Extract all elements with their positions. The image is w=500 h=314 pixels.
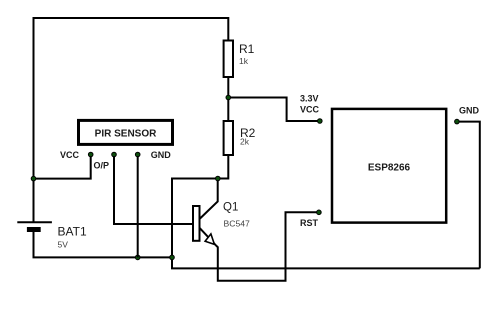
svg-text:BAT1: BAT1 [58,225,87,239]
svg-text:GND: GND [459,106,480,116]
wire ground bus [171,267,480,269]
wire PIR GND down to bus [137,156,139,257]
wire O/P to transistor base [114,156,193,224]
node ESP VCC pin [318,119,323,124]
node ESP GND pin [455,119,460,124]
node ESP RST pin [317,210,322,215]
node PIR O/P pin [112,152,117,157]
svg-text:PIR SENSOR: PIR SENSOR [95,129,157,140]
svg-text:GND: GND [151,150,172,160]
ESP8266 box [332,109,446,223]
svg-text:O/P: O/P [94,161,110,171]
node PIR GND pin [135,152,140,157]
battery BAT1 plate minus [27,227,41,232]
wire collector node to ground drop [172,179,218,269]
wire right rail to ESP GND pin [459,122,480,269]
wire emitter to RST pin [217,212,317,280]
transistor Q1 emitter arrowhead [205,234,214,245]
wire battery minus to ground bus [34,232,173,258]
node PIR VCC pin [88,152,93,157]
wire R2 bottom to collector node [218,155,229,179]
node collector junction [216,176,221,181]
svg-text:VCC: VCC [60,150,80,160]
svg-text:Q1: Q1 [223,202,238,214]
svg-text:5V: 5V [58,240,69,250]
wire R1 bottom to junction [227,77,229,98]
wire top rail (battery plus to R1 top) [34,18,229,222]
resistor R2 [224,121,233,155]
transistor Q1 base bar [193,206,200,241]
svg-text:RST: RST [300,218,319,228]
PIR sensor box [79,120,173,144]
node R1/R2 junction [226,95,231,100]
svg-text:3.3V: 3.3V [300,94,319,104]
node left rail junction [31,176,36,181]
node bus left junction [170,255,175,260]
svg-text:ESP8266: ESP8266 [368,163,411,174]
svg-text:1k: 1k [239,56,249,66]
wire left rail to PIR VCC [34,156,91,179]
transistor Q1 emitter lead [200,228,218,247]
svg-text:2k: 2k [240,137,250,147]
svg-text:BC547: BC547 [224,219,250,229]
svg-text:R1: R1 [239,42,255,56]
transistor Q1 collector lead [200,179,218,219]
wire junction to R2 top [227,98,229,122]
node bus / PIR GND junction [135,255,140,260]
resistor R1 [224,41,233,78]
battery BAT1 plate plus [17,221,52,223]
wire junction to 3.3V VCC pin [228,98,318,122]
svg-text:VCC: VCC [300,105,320,115]
